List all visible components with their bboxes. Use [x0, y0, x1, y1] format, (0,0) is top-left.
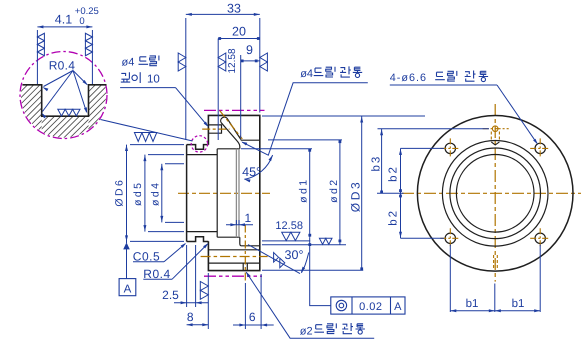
bolt hole at (450.3,238.3)	[445, 233, 455, 243]
dimension OD3	[262, 116, 425, 270]
45deg hole breakout notch	[491, 142, 499, 145]
side (end) view of flange	[402, 104, 581, 282]
C0.5 chamfer label	[133, 243, 186, 264]
dimension 20	[218, 25, 260, 141]
dimension od2	[262, 140, 346, 245]
center line ø4 axial hole	[202, 128, 229, 130]
svg-text:ø4: ø4	[122, 56, 135, 68]
dimension od4	[150, 164, 184, 223]
dimension 9	[241, 43, 260, 138]
bore ød1	[217, 148, 240, 150]
flange OD circle (OD3)	[417, 116, 573, 272]
bore circle (od5)	[456, 155, 534, 233]
45 degree angular dimension	[242, 155, 272, 182]
svg-text:b2: b2	[388, 165, 400, 182]
dimension 6 (o2 hole position)	[233, 274, 274, 329]
svg-text:6: 6	[249, 310, 256, 324]
svg-text:ØD6: ØD6	[113, 178, 125, 207]
svg-text:A: A	[124, 283, 132, 295]
dimension 1 (relief groove width)	[226, 211, 253, 227]
leader o2 drill through	[246, 272, 374, 339]
side view vertical center line	[494, 104, 496, 282]
relief groove line 2 (gray)	[238, 149, 240, 237]
dimension od1	[241, 149, 312, 237]
leader: o4 drill depth10 label	[120, 88, 209, 128]
dimension 4.1 +0.25/0	[36, 30, 38, 84]
svg-text:45°: 45°	[242, 165, 261, 179]
rounded top end of diagonal hole	[221, 117, 227, 123]
svg-text:A: A	[394, 301, 402, 313]
label 4-o6.6 drill through (Korean)	[390, 71, 488, 85]
label o4 drill depth 10 (Korean)	[121, 56, 160, 86]
R0.4 fillet label	[143, 243, 208, 281]
o4 hole projection (top of side view)	[492, 126, 498, 132]
surface finish marks above OD6	[134, 133, 142, 142]
center line (main axis)	[178, 192, 270, 194]
relief groove line 1 (gray)	[235, 149, 237, 237]
svg-text:1: 1	[244, 211, 251, 225]
feature control frame leader	[310, 237, 331, 305]
dimension b3	[370, 129, 489, 194]
svg-text:12.58: 12.58	[275, 220, 303, 232]
groove profile (detail)	[22, 85, 106, 116]
svg-text:R0.4: R0.4	[49, 59, 76, 73]
surface marks on extension line (left of flange face)	[200, 282, 208, 291]
svg-text:ød1: ød1	[298, 178, 310, 203]
svg-text:20: 20	[232, 25, 246, 39]
svg-text:0.02: 0.02	[359, 301, 382, 313]
svg-text:ø2: ø2	[300, 326, 313, 338]
bolt hole at (450.3,148.4)	[445, 143, 455, 153]
dimensions b2 b2	[377, 148, 444, 238]
svg-text:ØD3: ØD3	[348, 180, 362, 212]
flange outline ØD3	[208, 115, 259, 270]
center line bolt hole (section)	[201, 256, 268, 258]
detail view balloon	[20, 52, 107, 139]
dimension 33	[186, 2, 260, 140]
detail connection line	[101, 120, 193, 142]
svg-text:12.58: 12.58	[227, 48, 238, 73]
svg-text:4.1: 4.1	[55, 13, 72, 27]
dimension 8 (cylinder length)	[187, 273, 209, 329]
surface finish marks on extension lines (top)	[178, 53, 186, 62]
label o4 drill through (Korean)	[300, 66, 362, 80]
svg-text:8: 8	[187, 310, 194, 324]
svg-text:b1: b1	[466, 298, 479, 310]
detail view: O-ring groove magnified	[0, 6, 193, 141]
counterbore circle (od2)	[442, 141, 548, 247]
side view horizontal center line	[402, 192, 581, 194]
ø4 45-degree drill passage (diagonal hole)	[221, 123, 240, 149]
surface marks at groove bottom (detail)	[58, 109, 65, 116]
ø2 drill through (bottom of flange)	[242, 263, 244, 271]
dimensions b1 b1	[450, 245, 540, 313]
svg-text:0: 0	[79, 16, 84, 27]
bore ød2	[241, 139, 260, 141]
bolt hole at (540.2,238.3)	[535, 233, 545, 243]
leader: o4 drill through label	[241, 83, 368, 155]
bore ød5	[187, 154, 218, 156]
svg-text:ød4: ød4	[150, 181, 162, 206]
svg-text:b3: b3	[370, 155, 382, 172]
dimension 2.5 (groove position)	[162, 245, 208, 307]
dimension od5	[132, 155, 184, 232]
part outline: cylinder ØD6 with O-ring grooves	[186, 145, 188, 242]
svg-text:9: 9	[246, 43, 253, 57]
phantom line bottom	[204, 275, 262, 277]
main section view of flanged bushing	[178, 110, 270, 280]
bore step ød5/ød1	[216, 149, 218, 237]
label o2 drill through (Korean)	[300, 323, 365, 338]
detail balloon circle on groove	[191, 136, 207, 152]
bore step ød1/ød2	[240, 237, 241, 245]
center line 45deg hole	[220, 111, 243, 139]
ø4 drill depth 10 (axial hole top-left of flange)	[208, 125, 221, 133]
center line ø2 hole	[244, 225, 246, 281]
bolt hole shown in lower section	[208, 249, 259, 251]
dimension 12.58 (bottom)	[262, 220, 311, 246]
svg-text:10: 10	[147, 74, 160, 86]
svg-text:ø4: ø4	[300, 68, 313, 80]
phantom line top	[204, 109, 265, 111]
svg-text:2.5: 2.5	[162, 288, 179, 302]
bore circle (od1)	[450, 148, 541, 239]
svg-text:ød5: ød5	[132, 181, 144, 206]
datum A symbol	[119, 242, 136, 295]
svg-text:b1: b1	[512, 298, 525, 310]
surface marks near 12.58 bottom	[282, 232, 291, 240]
svg-text:30°: 30°	[285, 248, 304, 262]
svg-text:4-ø6.6: 4-ø6.6	[390, 72, 427, 84]
leader 4-o6.6 drill through	[390, 85, 538, 144]
svg-text:ød2: ød2	[328, 178, 340, 203]
svg-text:b2: b2	[388, 209, 400, 226]
o2 hole projection (bottom of side view)	[493, 255, 495, 269]
svg-text:33: 33	[227, 2, 241, 16]
bolt hole at (540.2,148.4)	[535, 143, 545, 153]
dimension OD6	[113, 145, 184, 243]
feature control frame (concentricity 0.02 A)	[331, 297, 405, 314]
30 degree dimension	[248, 245, 309, 274]
